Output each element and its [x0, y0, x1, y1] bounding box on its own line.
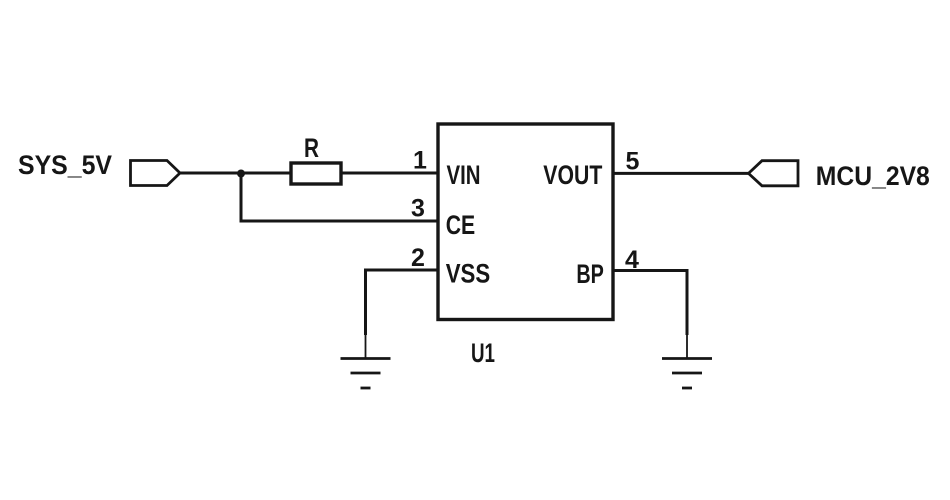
- wire CE horizontal to pin 3: [240, 220, 439, 223]
- svg-text:SYS_5V: SYS_5V: [18, 150, 112, 180]
- svg-text:VSS: VSS: [446, 259, 491, 289]
- svg-text:1: 1: [413, 147, 427, 175]
- ground lead right (thin): [686, 335, 688, 358]
- port connector MCU_2V8: [749, 161, 799, 186]
- svg-text:3: 3: [411, 195, 425, 223]
- junction dot: [237, 170, 245, 178]
- wire VOUT pin 5 to port: [613, 172, 749, 175]
- wire junction down to CE: [240, 173, 243, 221]
- svg-text:2: 2: [411, 244, 425, 272]
- port connector SYS_5V: [131, 161, 181, 186]
- ground symbol left: [341, 359, 391, 389]
- svg-text:BP: BP: [576, 259, 604, 289]
- wire VSS down to ground: [364, 269, 367, 336]
- IC U1 body: [438, 124, 613, 320]
- wire BP pin 4 horizontal: [613, 269, 689, 272]
- ground symbol right: [662, 359, 712, 389]
- svg-text:R: R: [304, 133, 319, 163]
- wire BP down to ground: [686, 269, 689, 335]
- resistor R: [291, 163, 341, 184]
- svg-text:CE: CE: [446, 210, 476, 240]
- svg-text:VOUT: VOUT: [543, 160, 602, 190]
- wire VSS pin 2 horizontal: [366, 269, 439, 272]
- svg-text:U1: U1: [471, 338, 495, 368]
- wire resistor to pin 1: [341, 172, 438, 175]
- svg-text:VIN: VIN: [447, 160, 481, 190]
- svg-text:MCU_2V8: MCU_2V8: [816, 161, 930, 191]
- ground lead left (thin): [365, 335, 367, 358]
- svg-text:5: 5: [626, 148, 640, 176]
- wire SYS_5V to resistor: [180, 172, 291, 175]
